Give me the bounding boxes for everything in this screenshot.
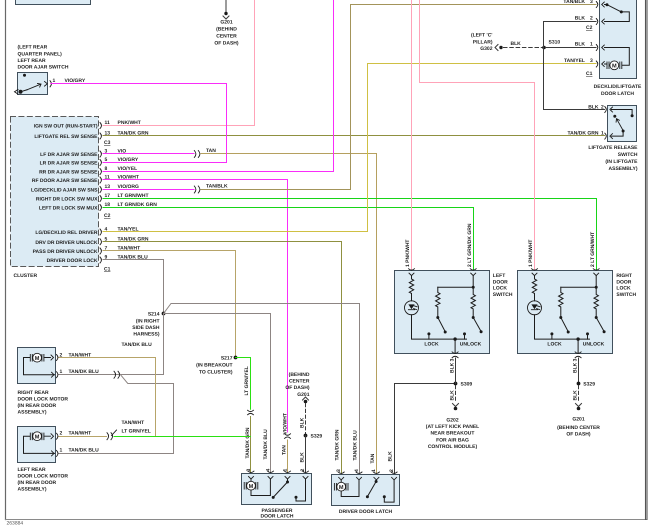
svg-text:(AT LEFT KICK PANEL: (AT LEFT KICK PANEL (426, 424, 479, 430)
passenger latch pin connectors (248, 471, 309, 479)
svg-text:TAN/DK GRN: TAN/DK GRN (335, 429, 341, 460)
svg-text:BLK 3: BLK 3 (572, 358, 578, 373)
driver door latch (332, 469, 400, 515)
svg-text:TAN/BLK: TAN/BLK (563, 0, 585, 5)
svg-text:2: 2 (590, 16, 593, 22)
resistor under pin1 (409, 276, 413, 301)
svg-text:S217: S217 (221, 356, 233, 362)
svg-text:BLK: BLK (511, 41, 522, 47)
svg-text:G201: G201 (297, 392, 309, 398)
svg-text:1: 1 (282, 469, 288, 472)
driver latch pin connectors (338, 472, 397, 480)
svg-text:3: 3 (246, 469, 252, 472)
svg-text:TAN/DK BLU: TAN/DK BLU (263, 429, 269, 460)
splice VIO/WHT to TAN (inline connector) (285, 434, 291, 439)
svg-text:2: 2 (60, 431, 63, 437)
svg-text:4: 4 (265, 469, 271, 472)
svg-text:LT GRN/YEL: LT GRN/YEL (244, 366, 250, 395)
wire TAN/DK GRN to passenger latch pin3 (250, 417, 252, 475)
svg-text:TAN/DK BLU: TAN/DK BLU (122, 342, 153, 348)
splice VIO to TAN (194, 151, 200, 158)
svg-text:(IN REAR DOOR: (IN REAR DOOR (18, 480, 57, 486)
svg-text:SIDE DASH: SIDE DASH (132, 325, 160, 331)
wire VIO/ORG cluster pin13 C2 (103, 189, 194, 191)
liftgate release switch pin connectors (605, 107, 613, 140)
splice on TAN/DK BLU rear motor wire (114, 371, 120, 378)
svg-text:2 LT GRN/WHT: 2 LT GRN/WHT (590, 232, 596, 267)
svg-text:(IN BREAKOUT: (IN BREAKOUT (196, 363, 232, 369)
svg-text:LEFT: LEFT (493, 273, 506, 279)
node S310 (542, 39, 560, 49)
svg-text:LT GRN/YEL: LT GRN/YEL (122, 428, 151, 434)
svg-text:2: 2 (601, 105, 604, 111)
svg-text:LOCK: LOCK (424, 342, 439, 348)
svg-text:RIGHT DR LOCK SW MUX: RIGHT DR LOCK SW MUX (36, 197, 98, 203)
svg-text:RF DOOR AJAR SW SENSE: RF DOOR AJAR SW SENSE (32, 178, 98, 184)
svg-text:2: 2 (389, 469, 395, 472)
svg-text:SWITCH: SWITCH (616, 292, 636, 298)
internal link pin2 (438, 276, 473, 288)
wire TAN/DK GRN cluster pin13 C3 to liftgate release switch pin1 (103, 135, 605, 137)
svg-text:ASSEMBLY): ASSEMBLY) (18, 410, 47, 416)
svg-text:G202: G202 (446, 418, 458, 424)
svg-text:1: 1 (60, 448, 63, 454)
svg-text:1 PNK/WHT: 1 PNK/WHT (405, 240, 411, 268)
svg-text:SWITCH: SWITCH (618, 152, 638, 158)
liftgate release switch (567, 105, 638, 173)
svg-text:M: M (339, 485, 344, 491)
svg-text:C2: C2 (104, 213, 111, 219)
node S214 splice (122, 312, 166, 349)
node S309 splice (454, 382, 473, 388)
svg-text:OF DASH): OF DASH) (285, 385, 310, 391)
svg-text:DOOR: DOOR (616, 279, 631, 285)
cluster wire name labels (118, 120, 158, 261)
partial box top-left (16, 0, 91, 5)
wire TAN/BLK to decklid latch pin3 C2 (201, 5, 596, 190)
decklid latch pin connectors (596, 2, 604, 68)
svg-text:BLK: BLK (388, 451, 394, 462)
wire BLK driver latch pin2 to S309 (395, 384, 454, 475)
svg-text:LEFT DR LOCK SW MUX: LEFT DR LOCK SW MUX (39, 206, 98, 212)
switch: left door lock switch (395, 269, 490, 358)
wire TAN/DK BLU S214 down to right rear door lock motor pin1 (58, 314, 164, 375)
svg-text:2: 2 (300, 469, 306, 472)
svg-text:BLK: BLK (588, 105, 599, 111)
wire BLK decklid latch pin2 C2 through S310 to liftgate release switch pin2 (544, 22, 605, 110)
svg-text:TAN/DK BLU: TAN/DK BLU (69, 369, 100, 375)
svg-text:TAN: TAN (370, 453, 376, 463)
wire TAN/DK BLU cluster pin9 C1 to S214 (103, 260, 164, 313)
resistor lock branch (436, 287, 440, 316)
svg-text:S309: S309 (461, 382, 473, 388)
svg-text:1: 1 (601, 131, 604, 137)
svg-text:3: 3 (590, 58, 593, 64)
svg-text:BLK 3: BLK 3 (449, 358, 455, 373)
wire BLK dashed G302 to S310 (504, 47, 543, 49)
svg-text:(IN REAR DOOR: (IN REAR DOOR (18, 403, 57, 409)
bus contacts (427, 332, 430, 335)
wire VIO/WHT cluster pin11 C2 to passenger door latch (103, 180, 288, 433)
wire TAN/WHT left rear motor pin2 to splice (58, 436, 107, 438)
svg-text:(IN RIGHT: (IN RIGHT (136, 318, 160, 324)
switch: left rear door ajar switch (15, 45, 86, 95)
svg-text:1: 1 (60, 369, 63, 375)
svg-text:LEFT REAR: LEFT REAR (18, 467, 46, 473)
svg-text:VIO/WHT: VIO/WHT (282, 413, 288, 434)
node S329 splice right (577, 382, 596, 388)
passenger latch internal motor (251, 479, 270, 496)
wire LT GRN/WHT cluster pin17 to right door lock switch pin2 (103, 199, 597, 271)
passenger door latch (242, 469, 312, 520)
wire BLK dashed S329 to G201 (578, 386, 580, 403)
svg-text:TAN/WHT: TAN/WHT (69, 431, 92, 437)
svg-text:1 PNK/WHT: 1 PNK/WHT (528, 240, 534, 268)
svg-text:RR DR AJAR SW SENSE: RR DR AJAR SW SENSE (39, 170, 98, 176)
svg-text:RIGHT REAR: RIGHT REAR (18, 390, 50, 396)
svg-text:LG/DECKLID AJAR SW SNS: LG/DECKLID AJAR SW SNS (31, 188, 98, 194)
svg-text:G201: G201 (220, 20, 232, 26)
svg-text:G302: G302 (480, 46, 492, 52)
svg-text:4: 4 (354, 469, 360, 472)
svg-text:2: 2 (60, 353, 63, 359)
svg-text:CONTROL MODULE): CONTROL MODULE) (428, 444, 478, 450)
decklid/liftgate door latch (563, 0, 642, 97)
svg-text:LIFTGATE RELEASE: LIFTGATE RELEASE (588, 145, 638, 151)
svg-text:TAN/DK GRN: TAN/DK GRN (567, 131, 598, 137)
svg-text:TAN/DK BLU: TAN/DK BLU (69, 448, 100, 454)
svg-text:DRIVER DOOR LOCK: DRIVER DOOR LOCK (47, 258, 98, 264)
svg-text:PASS DR DRIVER UNLOCK: PASS DR DRIVER UNLOCK (33, 249, 98, 255)
wire TAN/DK BLU S214 branch to driver door latch pin4 (164, 304, 360, 475)
wire TAN to driver door latch pin1 (201, 154, 377, 475)
svg-text:C1: C1 (104, 267, 111, 273)
wire BLK left switch to S309 (455, 358, 457, 384)
svg-text:(LEFT REAR: (LEFT REAR (18, 45, 48, 51)
splice VIO/ORG to TAN/BLK (194, 186, 200, 193)
svg-text:HARNESS): HARNESS) (133, 332, 159, 338)
bottom exit connector (454, 339, 456, 353)
wire PNK/WHT to right door lock switch pin1 (420, 1, 535, 271)
svg-text:TAN: TAN (281, 445, 287, 455)
ground G201 (behind center of dash, bottom right) (557, 404, 600, 438)
svg-text:3: 3 (590, 0, 593, 5)
wire BLK S329 to passenger latch pin2 (305, 436, 307, 475)
svg-text:DRIVER DOOR LATCH: DRIVER DOOR LATCH (339, 509, 393, 515)
svg-text:ASSEMBLY): ASSEMBLY) (18, 487, 47, 493)
cluster pin numbers (105, 120, 111, 261)
svg-text:M: M (612, 64, 617, 70)
motor: left rear door lock motor (18, 427, 100, 493)
wire BLK dashed S309 to G202 (455, 386, 457, 403)
svg-text:DRV DR DRIVER UNLOCK: DRV DR DRIVER UNLOCK (35, 240, 98, 246)
wire TAN to passenger latch pin1 (287, 440, 289, 474)
node S329 splice (304, 434, 323, 440)
node S217 splice (196, 356, 237, 376)
decklid latch internal motor (605, 48, 630, 66)
svg-text:UNLOCK: UNLOCK (460, 342, 482, 348)
svg-text:S310: S310 (549, 39, 561, 45)
wire PNK/WHT to left door lock switch pin1 (411, 1, 413, 271)
svg-text:(BEHIND CENTER: (BEHIND CENTER (557, 425, 600, 431)
svg-text:263884: 263884 (7, 521, 24, 527)
wire LT GRN/YEL S217 down (236, 358, 251, 410)
wire LT GRN/DK GRN cluster pin18 to left door lock switch pin2 (103, 208, 474, 271)
svg-text:(IN LIFTGATE: (IN LIFTGATE (605, 159, 638, 165)
svg-text:DOOR: DOOR (493, 279, 508, 285)
svg-text:OF DASH): OF DASH) (214, 41, 239, 47)
svg-text:DOOR LATCH: DOOR LATCH (601, 91, 634, 97)
wire TAN/WHT right rear motor pin2 joining left rear motor pin2 (58, 358, 156, 437)
svg-text:CENTER: CENTER (289, 379, 310, 385)
svg-text:LOCK: LOCK (616, 286, 631, 292)
wire TAN/DK GRN cluster pin5 C1 to driver door latch pin3 (103, 242, 342, 475)
svg-text:TAN/WHT: TAN/WHT (69, 353, 92, 359)
svg-text:LF DR AJAR SW SENSE: LF DR AJAR SW SENSE (40, 152, 98, 158)
svg-text:BLK: BLK (575, 16, 586, 22)
svg-text:G201: G201 (572, 417, 584, 423)
svg-text:CLUSTER: CLUSTER (14, 273, 38, 279)
wire TAN/YEL cluster pin4 C1 to decklid latch pin3 C1 (103, 64, 596, 232)
svg-text:BLK: BLK (449, 390, 455, 401)
cluster (instrument cluster, dashed box) (11, 117, 158, 280)
svg-text:M: M (35, 435, 40, 441)
svg-text:BLK: BLK (575, 42, 586, 48)
svg-text:BLK: BLK (300, 417, 306, 428)
wire LT GRN/YEL horizontal to rear motor splice (114, 436, 251, 438)
svg-text:TAN/DK GRN: TAN/DK GRN (245, 427, 251, 458)
svg-text:C1: C1 (586, 71, 593, 77)
svg-text:DECKLID/LIFTGATE: DECKLID/LIFTGATE (594, 84, 642, 90)
svg-text:QUARTER PANEL): QUARTER PANEL) (18, 52, 63, 58)
svg-text:SWITCH: SWITCH (493, 292, 513, 298)
ground G201 (behind center of dash, above S329) (285, 372, 310, 434)
svg-text:IGN SW OUT (RUN-START): IGN SW OUT (RUN-START) (34, 124, 98, 130)
wire frame-left (5, 1, 7, 520)
svg-text:TO CLUSTER): TO CLUSTER) (199, 370, 233, 376)
driver latch internal switch (375, 480, 377, 481)
svg-text:S329: S329 (311, 434, 323, 440)
svg-text:TAN/WHT: TAN/WHT (122, 420, 145, 426)
wire VIO/GRY cluster pin5 to left rear door ajar switch (51, 84, 227, 163)
wire PNK/WHT cluster pin11 C3 (103, 1, 255, 126)
wire BLK dashed G201 to S329 (305, 404, 307, 434)
svg-text:S329: S329 (583, 382, 595, 388)
svg-text:DOOR AJAR SWITCH: DOOR AJAR SWITCH (18, 65, 69, 71)
wire TAN/DK BLU S214 branch to passenger door latch pin4 (164, 314, 271, 475)
wire BLK S310 to decklid latch pin1 C1 (546, 47, 597, 49)
inline connector on green vertical (248, 410, 254, 415)
wire VIO/YEL cluster pin8 (103, 1, 334, 172)
wire frame-bottom (6, 519, 647, 521)
decklid latch internal ajar switch (605, 5, 630, 22)
svg-text:TAN/BLK: TAN/BLK (206, 184, 228, 190)
liftgate release switch internal contacts (612, 110, 633, 115)
cluster pin connectors (100, 123, 101, 264)
svg-text:M: M (35, 356, 40, 362)
svg-text:BLK: BLK (572, 390, 578, 401)
wire BLK right switch to S329 (578, 358, 580, 382)
splice TAN/WHT to LT GRN/YEL (107, 430, 117, 440)
LED indicator (405, 301, 419, 315)
svg-text:M: M (249, 484, 254, 490)
svg-text:DOOR LOCK MOTOR: DOOR LOCK MOTOR (18, 397, 69, 403)
svg-text:NEAR BREAKOUT: NEAR BREAKOUT (431, 431, 475, 437)
svg-text:C3: C3 (104, 140, 111, 146)
resistor unlock branch (471, 287, 475, 316)
svg-text:2 LT GRN/DK GRN: 2 LT GRN/DK GRN (467, 223, 473, 267)
svg-text:LG/DECKLID REL DRIVER: LG/DECKLID REL DRIVER (35, 230, 98, 236)
svg-text:BLK: BLK (300, 452, 306, 463)
ground G201 (top, behind center of dash) (214, 1, 239, 47)
svg-text:DOOR LATCH: DOOR LATCH (261, 513, 294, 519)
svg-text:(LEFT 'C': (LEFT 'C' (471, 33, 493, 39)
svg-text:LEFT REAR: LEFT REAR (18, 58, 46, 64)
pin 1 connector of ajar switch (50, 81, 51, 87)
ground G302 (left C pillar) (471, 33, 543, 53)
svg-text:CENTER: CENTER (216, 34, 237, 40)
svg-text:TAN/DK BLU: TAN/DK BLU (353, 430, 359, 461)
svg-text:LOCK: LOCK (493, 286, 508, 292)
driver latch internal motor (341, 480, 359, 497)
svg-text:LR DR AJAR SW SENSE: LR DR AJAR SW SENSE (40, 161, 99, 167)
wire TAN/DK BLU branch to left rear door lock motor pin1 (58, 375, 174, 454)
switch: right door lock switch (518, 269, 613, 358)
svg-text:LIFTGATE REL SW SENSE: LIFTGATE REL SW SENSE (34, 134, 98, 140)
wire frame-right (646, 1, 648, 520)
svg-text:RIGHT: RIGHT (616, 273, 632, 279)
svg-text:S214: S214 (148, 312, 160, 318)
svg-text:DOOR LOCK MOTOR: DOOR LOCK MOTOR (18, 474, 69, 480)
motor: right rear door lock motor (18, 348, 100, 416)
passenger latch internal switch (287, 479, 289, 482)
svg-text:PILLAR): PILLAR) (473, 40, 493, 46)
svg-text:1: 1 (590, 42, 593, 48)
wire TAN/WHT cluster pin7 C1 to S217 (103, 251, 236, 357)
svg-text:(BEHIND: (BEHIND (289, 372, 310, 378)
svg-text:OF DASH): OF DASH) (566, 432, 591, 438)
svg-text:FOR AIR BAG: FOR AIR BAG (436, 437, 469, 443)
wire VIO cluster pin3 C2 (103, 153, 194, 155)
svg-text:C2: C2 (586, 25, 593, 31)
svg-text:ASSEMBLY): ASSEMBLY) (609, 166, 638, 172)
svg-text:(BEHIND: (BEHIND (216, 27, 237, 33)
svg-text:TAN/YEL: TAN/YEL (564, 58, 585, 64)
ground G202 (at left kick panel) (426, 404, 479, 450)
svg-text:3: 3 (336, 469, 342, 472)
svg-text:1: 1 (371, 469, 377, 472)
